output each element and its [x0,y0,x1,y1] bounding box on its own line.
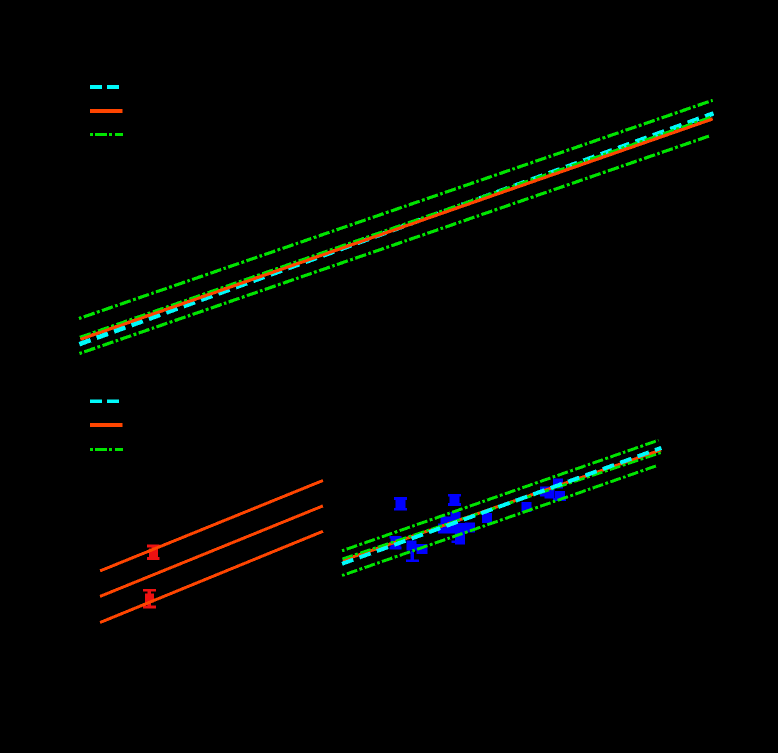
blue cluster square mid2 [457,523,467,533]
bottom-left: orange line 3 (bottom) [100,531,323,622]
blue data point I with bottom cap [553,491,566,501]
top band: green dash-dot central line [80,116,713,337]
legend bottom: cyan dashed entry [90,399,119,403]
blue data point D with small error bar [390,537,402,549]
blue data point A with error bar [394,498,407,509]
bottom band: lower green dash-dot bound [342,466,657,576]
red errorbar marker 1 [147,546,160,559]
blue data point B (double) with caps [448,495,461,505]
bottom-left: orange line 1 (top) [100,481,323,571]
bottom band: orange solid central line [343,450,661,561]
blue cluster square mid3 [465,523,475,533]
legend bottom: green dash-dot entry [90,448,123,451]
blue data point G pair [540,487,555,499]
blue cluster square top [450,512,460,522]
bottom band: green dash-dot central line [342,453,661,559]
top band: cyan dashed fit line [79,113,713,344]
red errorbar marker 2 [143,590,156,607]
blue cluster square low1 [455,530,465,540]
blue data point E pair with bottom cap [406,541,427,561]
top band: upper green dash-dot bound [79,100,713,318]
bottom band: upper green dash-dot bound [342,440,659,551]
legend bottom: orange solid entry [90,423,123,427]
top band: orange solid central line [80,119,712,339]
blue cluster square left1 [441,517,451,527]
blue data point H [553,479,563,489]
blue cluster square right [482,513,492,523]
blue cluster square low2 with bottom cap [452,535,466,545]
legend top: cyan dashed entry [90,85,119,89]
blue cluster square left2 [438,524,448,534]
bottom band: cyan dashed fit line [342,448,661,564]
blue cluster square mid1 [448,524,458,534]
legend top: orange solid entry [90,109,123,113]
legend top: green dash-dot entry [90,133,123,136]
top band: lower green dash-dot bound [80,135,712,353]
blue data point F [522,502,532,512]
bottom-left: orange line 2 (middle) [100,506,323,597]
